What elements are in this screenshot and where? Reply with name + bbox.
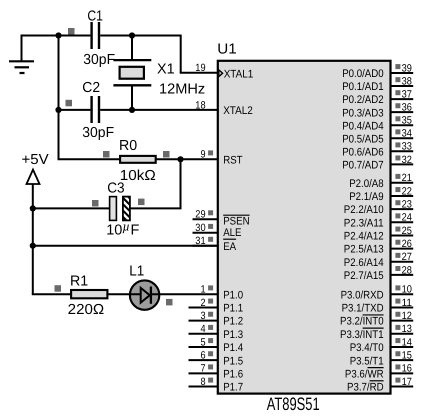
svg-text:4: 4 (201, 323, 206, 335)
svg-text:11: 11 (402, 297, 412, 309)
svg-text:P0.4/AD4: P0.4/AD4 (342, 120, 383, 132)
svg-text:P2.5/A13: P2.5/A13 (344, 244, 384, 256)
svg-text:37: 37 (402, 89, 412, 101)
svg-text:P0.7/AD7: P0.7/AD7 (342, 159, 383, 171)
svg-text:C1: C1 (87, 9, 103, 25)
svg-text:P0.2/AD2: P0.2/AD2 (342, 94, 383, 106)
svg-text:15: 15 (402, 350, 412, 362)
svg-text:30: 30 (195, 222, 205, 234)
svg-text:P3.4/T0: P3.4/T0 (350, 342, 384, 354)
svg-text:P2.4/A12: P2.4/A12 (344, 231, 384, 243)
svg-text:29: 29 (195, 209, 205, 221)
svg-text:5: 5 (201, 336, 206, 348)
svg-text:P3.2/INT0: P3.2/INT0 (340, 316, 384, 328)
svg-text:24: 24 (402, 212, 412, 224)
svg-text:30pF: 30pF (82, 125, 114, 141)
svg-text:PSEN: PSEN (223, 216, 249, 228)
svg-text:P0.0/AD0: P0.0/AD0 (342, 68, 383, 80)
svg-text:P3.6/WR: P3.6/WR (345, 368, 384, 380)
svg-text:23: 23 (402, 199, 412, 211)
svg-text:P1.0: P1.0 (223, 289, 243, 301)
svg-text:22: 22 (402, 185, 412, 197)
svg-text:12MHz: 12MHz (159, 82, 205, 98)
svg-text:220Ω: 220Ω (68, 302, 105, 318)
svg-text:P1.7: P1.7 (223, 382, 243, 394)
svg-text:P2.7/A15: P2.7/A15 (344, 270, 384, 282)
svg-text:P1.5: P1.5 (223, 355, 243, 367)
svg-text:10kΩ: 10kΩ (120, 168, 156, 184)
svg-text:13: 13 (402, 323, 412, 335)
svg-text:P3.3/INT1: P3.3/INT1 (340, 329, 384, 341)
svg-text:P3.7/RD: P3.7/RD (347, 382, 384, 394)
svg-text:AT89S51: AT89S51 (267, 394, 320, 414)
svg-text:39: 39 (402, 62, 412, 74)
svg-text:U1: U1 (217, 42, 237, 58)
svg-text:27: 27 (402, 251, 412, 263)
svg-text:R1: R1 (70, 273, 88, 289)
svg-text:XTAL2: XTAL2 (223, 105, 253, 117)
svg-text:P3.5/T1: P3.5/T1 (350, 355, 384, 367)
svg-text:ALE: ALE (223, 227, 241, 239)
svg-text:30pF: 30pF (83, 52, 115, 68)
svg-text:P0.6/AD6: P0.6/AD6 (342, 146, 383, 158)
svg-text:P1.3: P1.3 (223, 329, 243, 341)
svg-text:8: 8 (201, 376, 206, 388)
svg-text:35: 35 (402, 115, 412, 127)
svg-text:P2.0/A8: P2.0/A8 (349, 178, 383, 190)
svg-text:P3.0/RXD: P3.0/RXD (341, 289, 384, 301)
svg-text:2: 2 (201, 297, 206, 309)
svg-text:17: 17 (402, 376, 412, 388)
svg-text:P2.2/A10: P2.2/A10 (344, 204, 384, 216)
svg-text:P2.1/A9: P2.1/A9 (349, 191, 383, 203)
svg-text:P1.4: P1.4 (223, 342, 243, 354)
svg-text:L1: L1 (129, 264, 144, 280)
svg-text:38: 38 (402, 75, 412, 87)
svg-text:21: 21 (402, 172, 412, 184)
svg-text:33: 33 (402, 141, 412, 153)
svg-text:P0.5/AD5: P0.5/AD5 (342, 133, 383, 145)
svg-text:P1.2: P1.2 (223, 316, 243, 328)
svg-text:R0: R0 (119, 138, 137, 154)
svg-text:C3: C3 (107, 181, 124, 197)
svg-text:C2: C2 (82, 80, 100, 96)
svg-text:P2.6/A14: P2.6/A14 (344, 257, 384, 269)
svg-text:P2.3/A11: P2.3/A11 (344, 217, 384, 229)
svg-text:P1.1: P1.1 (223, 303, 243, 315)
svg-text:RST: RST (223, 154, 243, 166)
svg-text:26: 26 (402, 238, 412, 250)
svg-text:X1: X1 (157, 61, 175, 77)
svg-text:32: 32 (402, 154, 412, 166)
svg-text:6: 6 (201, 350, 206, 362)
svg-text:XTAL1: XTAL1 (224, 68, 254, 80)
svg-text:P0.3/AD3: P0.3/AD3 (342, 107, 383, 119)
svg-text:12: 12 (402, 310, 412, 322)
svg-text:EA: EA (223, 241, 236, 253)
svg-text:25: 25 (402, 225, 412, 237)
svg-text:P3.1/TXD: P3.1/TXD (342, 303, 384, 315)
svg-text:34: 34 (402, 128, 412, 140)
svg-text:10: 10 (402, 284, 412, 296)
svg-text:7: 7 (201, 363, 206, 375)
svg-text:14: 14 (402, 336, 412, 348)
svg-text:3: 3 (201, 310, 206, 322)
svg-text:+5V: +5V (22, 152, 50, 168)
svg-text:P1.6: P1.6 (223, 368, 243, 380)
svg-text:28: 28 (402, 264, 412, 276)
svg-text:P0.1/AD1: P0.1/AD1 (342, 81, 383, 93)
svg-text:16: 16 (402, 363, 412, 375)
svg-text:36: 36 (402, 102, 412, 114)
